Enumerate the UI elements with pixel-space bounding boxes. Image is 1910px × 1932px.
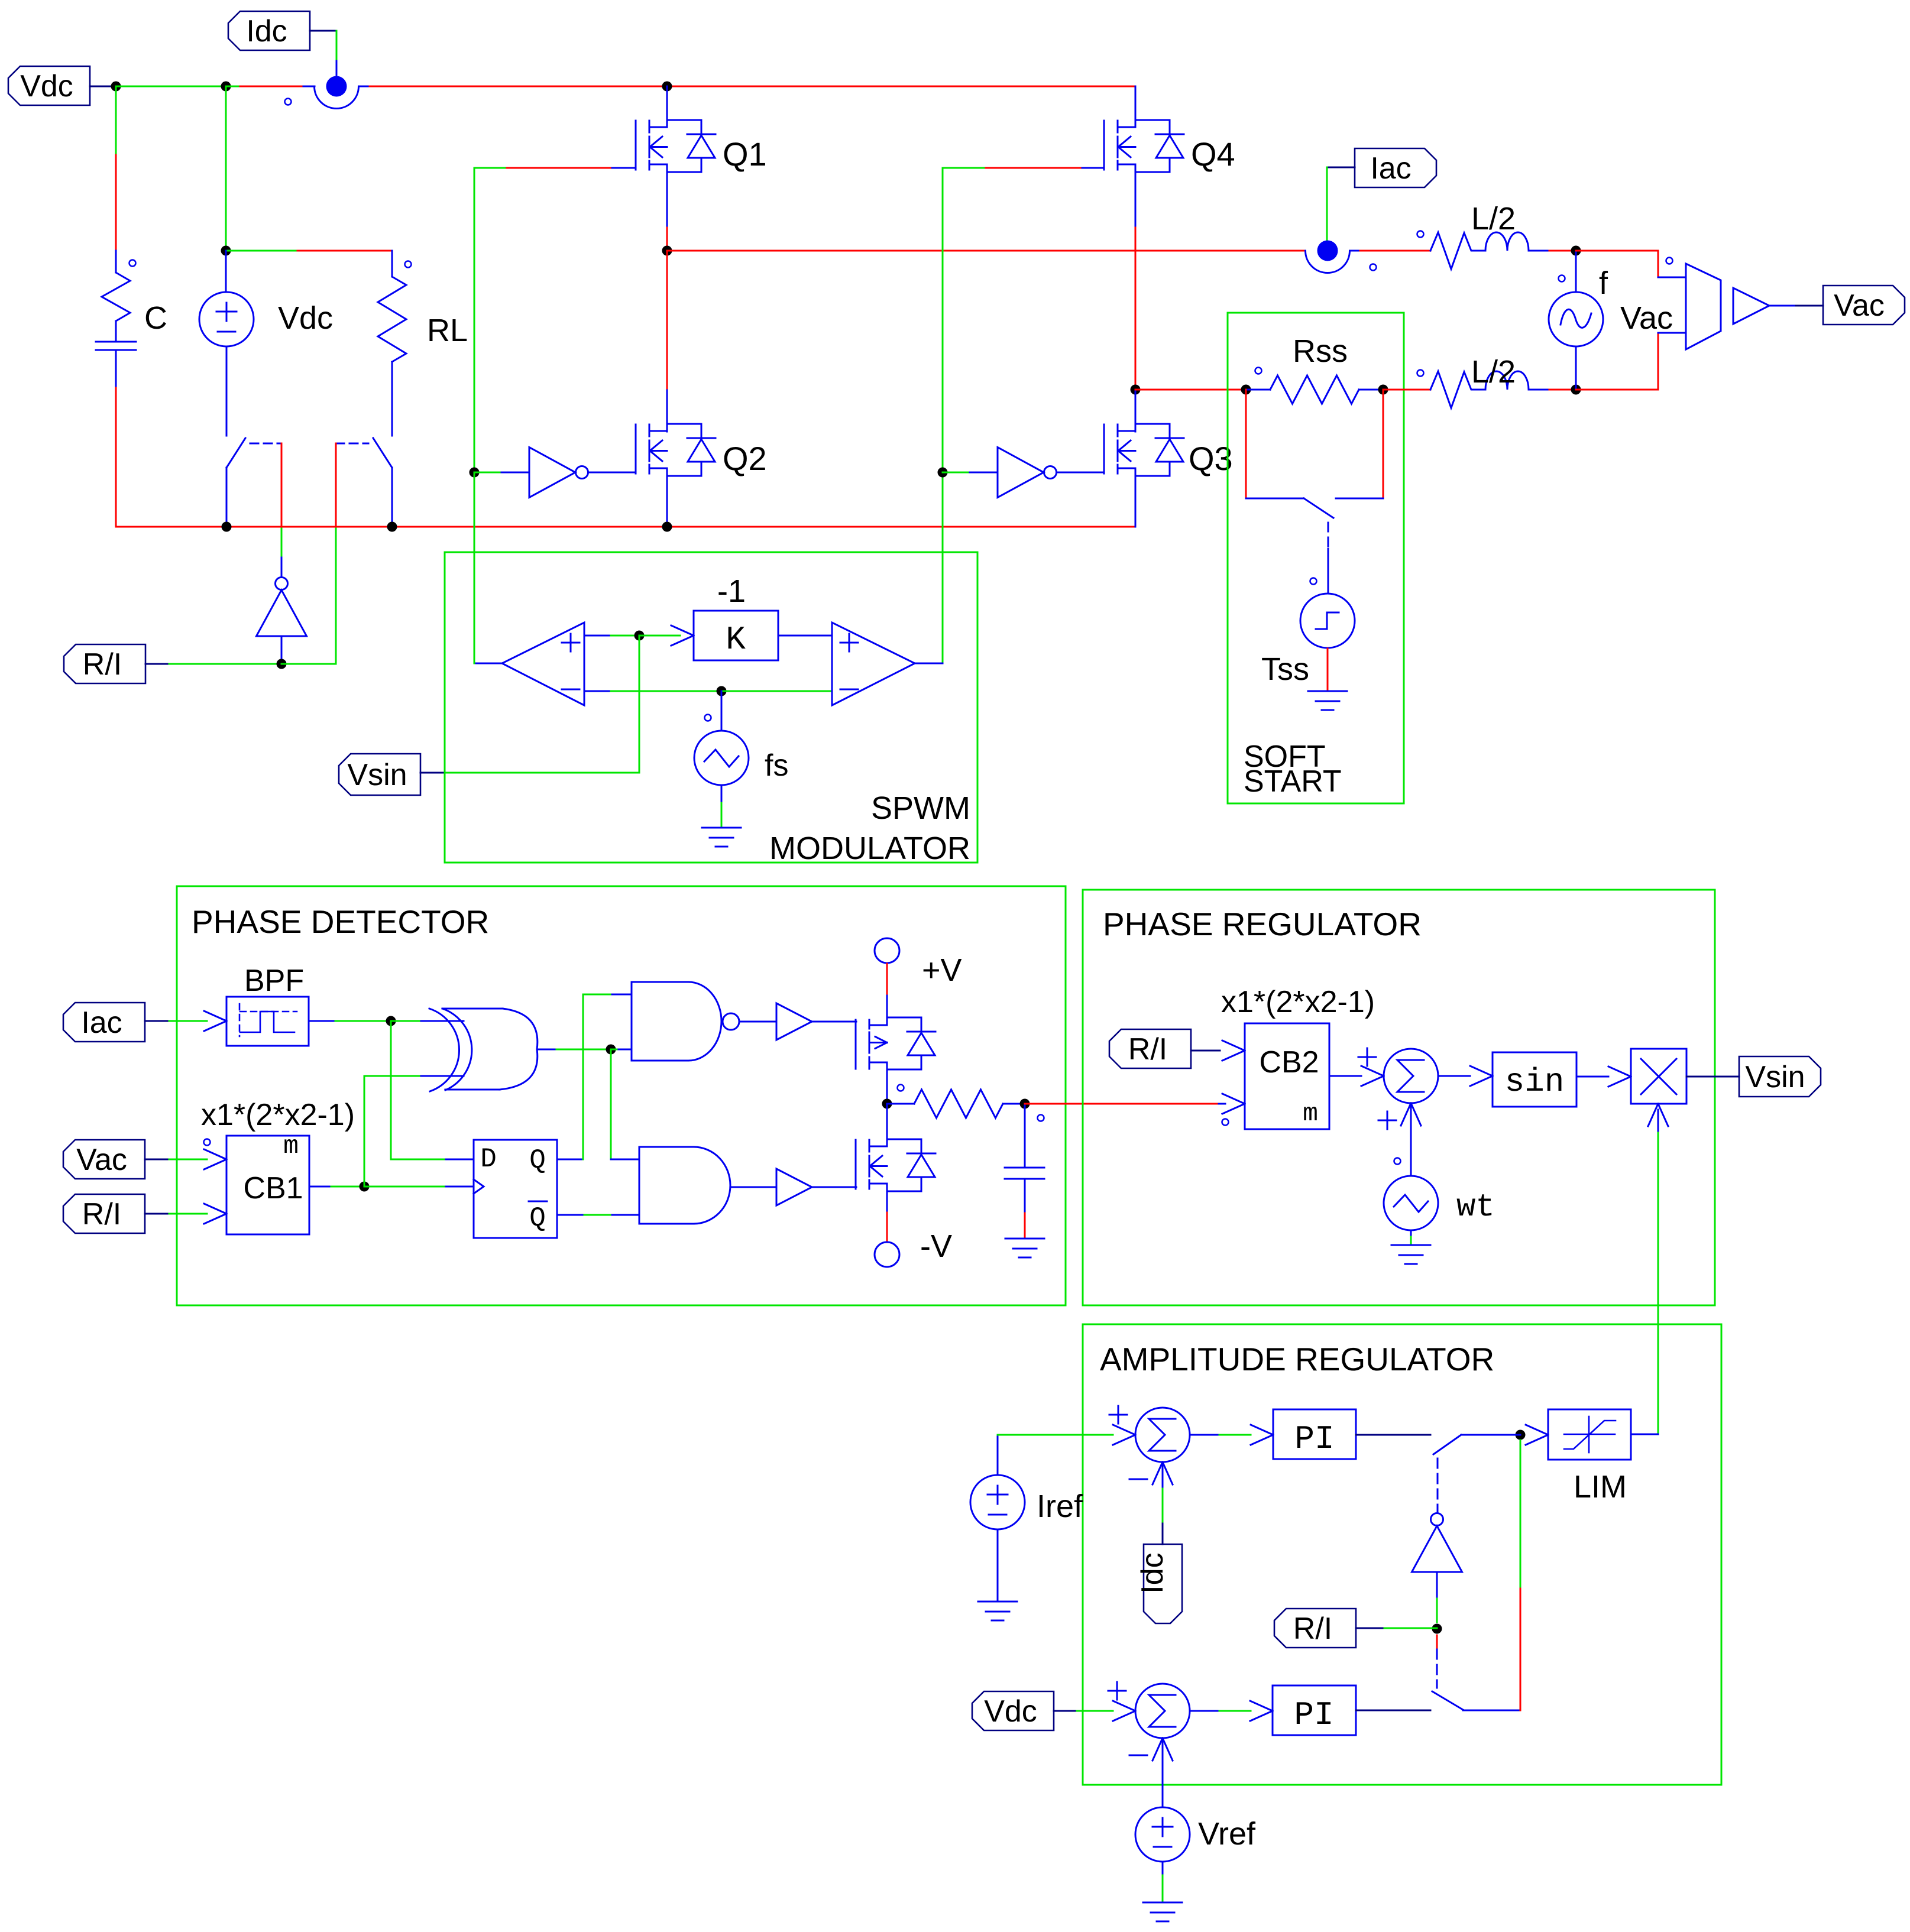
svg-text:x1*(2*x2-1): x1*(2*x2-1) [201, 1098, 355, 1132]
svg-text:LIM: LIM [1574, 1469, 1627, 1505]
node S1-gate wire (red then green) [281, 443, 283, 527]
wire Vsin node down to Vsin input wire [639, 636, 640, 772]
switch S1 (under Vdc source) [226, 438, 245, 468]
svg-text:Q1: Q1 [723, 135, 767, 173]
transistor Q2 (MOSFET with body diode) [666, 251, 668, 390]
wire node A to node B (green) [116, 86, 226, 87]
band-pass filter BPF [226, 997, 309, 1046]
inductor L/2 (bottom) [1417, 370, 1424, 377]
label tag Iac (top) [1355, 148, 1436, 187]
wire +V to upper MOSFET [886, 964, 888, 996]
wire Q3 source to bottom rail [1135, 476, 1137, 527]
wire Iac tag to current sensor [1327, 167, 1355, 168]
wire Vref to summer 2 [1163, 1738, 1173, 1761]
wire Q4 source down to node D [1135, 172, 1137, 228]
label tag R/I (phase detector input) [63, 1194, 145, 1233]
step source Tss [1300, 594, 1355, 648]
svg-text:D: D [480, 1144, 497, 1175]
soft start switch gate dashed link [1328, 523, 1329, 549]
transistor Q1 (MOSFET with body diode) [662, 82, 672, 92]
switch gate dashed link (lower) [1436, 1635, 1438, 1649]
wire summer to sin block [1438, 1075, 1470, 1077]
svg-text:-1: -1 [717, 573, 746, 609]
AND gate [639, 1147, 694, 1224]
junction Q2 source / bottom rail [662, 522, 672, 532]
wire BPF output to XOR [309, 1020, 335, 1022]
SPWM modulator group box [445, 552, 977, 863]
svg-text:PHASE DETECTOR: PHASE DETECTOR [192, 903, 489, 940]
label tag Vsin [339, 754, 420, 795]
wire sin to multiplier [1576, 1076, 1608, 1078]
block CB2 [1245, 1023, 1329, 1129]
wire top rail sensor to Q1/Q4 drains [370, 86, 1135, 87]
label tag R/I (phase regulator input) [1109, 1029, 1191, 1068]
svg-text:AMPLITUDE REGULATOR: AMPLITUDE REGULATOR [1100, 1341, 1494, 1377]
wire Q1 gate [474, 167, 507, 169]
svg-text:fs: fs [765, 748, 788, 783]
svg-text:PI: PI [1294, 1420, 1334, 1458]
limiter block LIM [1548, 1409, 1631, 1460]
wire PI 1 to switch [1356, 1434, 1430, 1436]
wire L/2 top to node E [1529, 250, 1549, 252]
wire CB1 output to DFF clock [309, 1186, 331, 1188]
wire Rss left down to soft-start switch [1245, 390, 1247, 498]
wire comparator-left + input / Vsin node [584, 635, 611, 637]
wire inverter input from R/I node [1436, 1572, 1438, 1599]
svg-text:L/2: L/2 [1471, 201, 1516, 236]
upper MOSFET (charge pump) [855, 1020, 857, 1069]
svg-text:Vdc: Vdc [278, 300, 333, 336]
node C junction [221, 246, 231, 256]
ground (wt) [1391, 1244, 1430, 1246]
wire summer 2 to PI 2 [1190, 1710, 1219, 1712]
wire buffer to upper MOSFET gate [812, 1021, 856, 1023]
wire NAND output to buffer [739, 1021, 776, 1023]
wire lower MOSFET source to -V [886, 1191, 888, 1213]
svg-text:R/I: R/I [1128, 1032, 1167, 1067]
wire L/2 bottom to node F [1529, 389, 1549, 391]
node B junction [221, 82, 231, 92]
svg-text:wt: wt [1456, 1189, 1495, 1226]
inductor L/2 (top) [1417, 231, 1424, 238]
svg-text:Vsin: Vsin [1745, 1060, 1805, 1094]
switch 2 (voltage loop select) [1432, 1691, 1463, 1710]
buffer (lower) [776, 1169, 812, 1205]
junction bottom rail / Vdc branch [222, 522, 232, 532]
svg-text:RL: RL [427, 313, 468, 348]
svg-text:Vsin: Vsin [347, 758, 407, 792]
svg-text:m: m [1303, 1099, 1318, 1128]
wire Vdc tag to node A [90, 86, 116, 87]
wire Vdc tag to summer 2 [1054, 1710, 1077, 1712]
wire Idc tag to summer 1 [1163, 1462, 1173, 1484]
wire multiplier to Vsin tag [1686, 1076, 1739, 1078]
current sensor Iac [1317, 241, 1338, 261]
wire node A down to capacitor C branch [115, 86, 117, 155]
XOR gate [429, 1009, 459, 1091]
junction bottom rail / RL branch [387, 522, 397, 532]
wire PI 2 to switch 2 [1356, 1710, 1430, 1711]
svg-text:Vdc: Vdc [984, 1694, 1037, 1729]
wire R/I tag to CB1 [145, 1213, 169, 1215]
svg-text:Vac: Vac [76, 1143, 127, 1177]
node D (Q3 drain / output leg) [1131, 385, 1141, 395]
label tag Idc (rotated) [1144, 1544, 1182, 1623]
switch S2 (under RL) [373, 438, 392, 468]
switch S2 gate dashed link [336, 443, 368, 445]
block PI (current loop) [1273, 1409, 1356, 1459]
wire BPF node down to DFF D input [390, 1021, 392, 1159]
multiplier block [1631, 1049, 1686, 1104]
svg-text:START: START [1244, 764, 1342, 799]
svg-text:-V: -V [920, 1228, 952, 1264]
switch (current loop select) [1433, 1435, 1461, 1454]
wire Rss right down to soft-start switch [1383, 390, 1384, 498]
amplitude regulator group box [1083, 1324, 1721, 1785]
wire DFF Q to NAND input 1 [557, 1159, 583, 1161]
wire Iref to ground [997, 1529, 999, 1600]
carrier source fs [721, 691, 723, 731]
svg-text:Vref: Vref [1198, 1816, 1256, 1852]
resistor RL [405, 261, 412, 268]
wire Q4 gate [943, 167, 986, 169]
wire node E to voltage sensor Vac (top) [1576, 250, 1658, 252]
wire CB2 output to summer [1329, 1075, 1361, 1077]
D flip-flop [474, 1140, 557, 1238]
transistor Q4 (MOSFET with body diode) [1135, 86, 1137, 127]
svg-text:Iac: Iac [1370, 151, 1411, 186]
voltage sensor Vac (trapezoid) [1666, 258, 1673, 264]
minus sign (Idc input) [1129, 1479, 1147, 1480]
wire PWM vertical to Q1/Q2 gates [474, 168, 475, 472]
phase detector group box [177, 886, 1066, 1305]
wire node I to LIM [1526, 1435, 1548, 1445]
svg-text:f: f [1599, 265, 1608, 301]
label tag Vac (output) [1823, 286, 1905, 325]
soft start switch [1246, 498, 1304, 500]
minus sign (Vref input) [1129, 1755, 1147, 1756]
wire DFF Qbar to AND input 2 [557, 1214, 584, 1216]
node I junction [1516, 1430, 1526, 1440]
wire Iref to summer 1 [997, 1435, 999, 1475]
dc source Vref [1135, 1807, 1190, 1862]
ground (fs) [702, 827, 741, 829]
filter capacitor [1024, 1104, 1026, 1168]
svg-text:C: C [144, 300, 167, 336]
svg-text:Q4: Q4 [1191, 135, 1235, 173]
wire comparator minus row (carrier) [584, 691, 611, 692]
dc source Iref [970, 1475, 1025, 1529]
svg-text:Q3: Q3 [1189, 440, 1233, 477]
node H junction [1020, 1099, 1030, 1109]
label tag Vac (phase detector input) [63, 1140, 145, 1179]
wire R/I tag to node J [1356, 1628, 1384, 1629]
inverter (drives S1 gate) [257, 590, 307, 636]
plus sign (Iref input) [1109, 1414, 1127, 1416]
svg-text:Vdc: Vdc [20, 69, 73, 103]
node G junction [882, 1099, 892, 1109]
block PI (voltage loop) [1273, 1685, 1356, 1735]
wire filter output into CB2 (lower input) [1219, 1103, 1225, 1105]
svg-text:Tss: Tss [1261, 651, 1309, 687]
wire node B down to node C [225, 86, 227, 251]
wire Iac tag to BPF [145, 1020, 169, 1022]
svg-text:Iac: Iac [81, 1006, 122, 1040]
wire Q2 source to bottom rail [666, 476, 668, 523]
label tag Idc (top) [228, 11, 310, 50]
amplifier buffer to Vac tag [1733, 288, 1769, 324]
NAND gate [632, 982, 688, 1061]
wire Q1 source to midpoint node [666, 172, 668, 228]
node F junction [1571, 385, 1581, 395]
wire CB1 node up to XOR input 2 [364, 1076, 365, 1187]
summer 1 (amplitude regulator) [1135, 1408, 1190, 1462]
wire node C to RL resistor top [226, 250, 297, 252]
wire SPWM output vertical to Q4/Q3 gates [942, 168, 944, 472]
plus sign (Vdc input) [1108, 1690, 1126, 1692]
svg-text:Idc: Idc [1135, 1552, 1170, 1593]
svg-text:PHASE REGULATOR: PHASE REGULATOR [1103, 906, 1422, 942]
svg-text:x1*(2*x2-1): x1*(2*x2-1) [1221, 985, 1375, 1019]
svg-text:Iref: Iref [1037, 1489, 1083, 1524]
svg-text:K: K [726, 621, 746, 659]
wire Vac tag to CB1 [145, 1159, 169, 1161]
svg-text:SPWM: SPWM [871, 790, 970, 826]
label tag Vdc (amplitude regulator input) [972, 1691, 1054, 1730]
wire wt to ground [1410, 1230, 1412, 1237]
svg-text:R/I: R/I [82, 1197, 121, 1231]
wire upper MOSFET source to node G [886, 1069, 888, 1104]
summer 2 (voltage loop) [1135, 1684, 1190, 1738]
buffer (upper) [776, 1003, 812, 1040]
ground (filter) [1005, 1238, 1044, 1240]
inverter (drives Q3 gate) [938, 468, 948, 478]
wire LIM output up into multiplier [1658, 1131, 1659, 1434]
resistor Rss [1241, 385, 1251, 395]
node E junction [1571, 246, 1581, 256]
wire sensor to inductor L/2 top [1360, 250, 1430, 252]
block sin [1493, 1052, 1576, 1107]
phase regulator group box [1083, 890, 1715, 1305]
wire buffer to lower MOSFET gate [812, 1187, 856, 1188]
svg-text:R/I: R/I [83, 647, 122, 682]
svg-text:+V: +V [922, 952, 962, 988]
svg-text:MODULATOR: MODULATOR [769, 831, 970, 866]
inverter (switch select) [1412, 1526, 1462, 1572]
ground (Iref) [978, 1601, 1017, 1603]
wire summer 1 to PI 1 [1190, 1434, 1219, 1436]
summer (phase regulator) [1384, 1049, 1438, 1103]
transistor Q3 (MOSFET with body diode) [1135, 390, 1137, 432]
wire XOR output [538, 1049, 556, 1051]
svg-text:L/2: L/2 [1471, 354, 1516, 390]
wire AND output to buffer [730, 1187, 776, 1188]
terminal -V [875, 1242, 899, 1267]
comparator (right, SPWM) [832, 623, 915, 705]
plus sign (wt input) [1378, 1120, 1396, 1121]
svg-text:BPF: BPF [244, 964, 304, 998]
soft start group box [1228, 313, 1404, 803]
wire Vref to ground [1162, 1862, 1164, 1875]
wire R/I tag to CB2 [1191, 1050, 1220, 1052]
inverter (drives Q2 gate) [470, 468, 480, 478]
svg-text:PI: PI [1294, 1696, 1333, 1734]
svg-text:Q2: Q2 [723, 440, 767, 477]
label tag R/I (bottom-left) [64, 644, 145, 683]
filter resistor (phase detector output) [898, 1085, 904, 1091]
node J junction (R/I) [1432, 1624, 1442, 1634]
svg-text:Vac: Vac [1834, 288, 1885, 323]
label tag R/I (amplitude regulator) [1274, 1609, 1356, 1648]
triangle source wt [1384, 1176, 1438, 1230]
wire wt source to summer [1411, 1103, 1421, 1126]
gain block K (-1) [671, 636, 694, 646]
node midpoint left leg [662, 246, 672, 256]
svg-text:m: m [283, 1132, 299, 1161]
wire phase detector output to CB2 [1025, 1103, 1219, 1105]
wire XOR node down to AND input 1 [610, 1049, 612, 1159]
wire LIM output right [1631, 1434, 1658, 1435]
wire K output to comparator-right + input [778, 635, 832, 637]
wire switch 2 up to node I [1513, 1710, 1520, 1711]
terminal +V [875, 938, 899, 963]
junction R/I / inverter input [277, 659, 287, 669]
voltage source Vdc [225, 251, 227, 292]
plus sign (CB2 input) [1358, 1056, 1376, 1058]
ac source f (grid) [1575, 251, 1577, 292]
switch gate dashed link (upper) [1437, 1458, 1439, 1506]
node A junction [111, 82, 121, 92]
wire midpoint to current sensor Iac [667, 250, 1305, 252]
switch S1 gate dashed link [250, 443, 281, 445]
block CB1 [226, 1136, 309, 1234]
label tag Vsin (output) [1739, 1056, 1821, 1097]
wire Idc tag to current sensor [310, 30, 336, 32]
svg-text:Vac: Vac [1620, 300, 1673, 336]
wire Tss to ground [1327, 649, 1329, 690]
svg-text:Idc: Idc [246, 14, 287, 48]
svg-text:CB2: CB2 [1259, 1045, 1319, 1080]
wire L/2 bottom from Rss [1383, 389, 1430, 391]
ground (Vref) [1143, 1902, 1182, 1904]
svg-text:Q: Q [529, 1203, 546, 1234]
svg-text:sin: sin [1505, 1063, 1565, 1101]
svg-text:Q: Q [529, 1145, 546, 1176]
label tag Vdc (top-left) [8, 66, 90, 105]
svg-text:R/I: R/I [1293, 1612, 1332, 1646]
ground (Tss) [1308, 691, 1347, 692]
wire node B to current sensor Idc [226, 86, 240, 87]
lower MOSFET (charge pump) [886, 1104, 888, 1139]
label tag Iac (phase detector input) [63, 1003, 145, 1042]
wire node F to voltage sensor Vac (bottom) [1576, 389, 1658, 391]
current sensor Idc [303, 86, 315, 87]
wire bottom rail [116, 526, 1135, 528]
wire R/I tag to gates [145, 663, 169, 665]
wire comparator-left output to gate column [474, 663, 502, 664]
wire node D to soft-start Rss [1135, 389, 1246, 391]
comparator (left, SPWM) [502, 623, 584, 705]
wire Vsin tag into SPWM box [420, 772, 445, 774]
wire fs to ground [721, 785, 723, 803]
wire C bottom to bottom rail [115, 388, 117, 527]
svg-text:CB1: CB1 [243, 1171, 303, 1205]
wire comparator-right output to Q4/Q3 gate column [915, 663, 943, 664]
svg-text:Rss: Rss [1293, 333, 1348, 369]
capacitor branch C (R+C series) [130, 260, 136, 267]
